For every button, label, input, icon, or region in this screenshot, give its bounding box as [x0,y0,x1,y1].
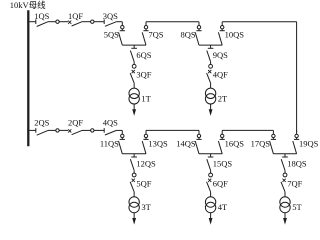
wire drop to 17QS [272,130,274,134]
svg-text:14QS: 14QS [176,138,196,148]
disconnector 1QS [35,19,37,24]
svg-text:8QS: 8QS [180,30,195,40]
disconnector 10QS [221,29,223,31]
wire 2QS to junction [48,129,56,131]
wire junction to 2QF [59,129,68,131]
wire drop to 13QS [145,130,147,134]
circuit breaker 5QF [132,179,135,182]
connection point 6QF [209,173,213,177]
junction point [91,20,94,23]
svg-text:1QF: 1QF [68,11,83,21]
wire junction to 1QF [59,21,68,23]
svg-text:15QS: 15QS [213,159,233,169]
wire jumper 13QS-14QS [146,129,199,131]
wire bar 11QS/13QS [122,153,146,155]
10kV busbar [27,10,29,146]
wire right riser [296,22,298,133]
connection point 5QF [132,173,136,177]
wire drop to 10QS [221,22,223,26]
svg-text:3QF: 3QF [136,70,151,80]
load arrow 3T [132,218,136,225]
svg-text:2T: 2T [218,93,228,103]
svg-text:4T: 4T [218,202,228,212]
load arrow 5T [283,218,287,225]
svg-text:5T: 5T [292,202,302,212]
svg-text:10kV母线: 10kV母线 [10,0,46,10]
connection point 17QS [272,134,275,137]
svg-text:7QF: 7QF [287,178,302,188]
wire busbar to 1QS [29,21,35,23]
svg-text:4QS: 4QS [103,117,118,127]
svg-text:13QS: 13QS [148,138,168,148]
wire 5T to load [284,213,286,219]
load arrow 4T [209,218,213,225]
connection point 8QS [197,26,200,29]
disconnector 9QS [210,45,212,48]
svg-text:11QS: 11QS [100,138,119,148]
svg-text:1T: 1T [141,93,151,103]
svg-text:2QF: 2QF [68,117,83,127]
disconnector 18QS [284,154,286,157]
wire 1T to load [133,104,135,110]
disconnector 16QS [221,138,223,140]
disconnector 14QS [198,138,200,140]
wire 4QS to drop [116,129,122,131]
junction point [56,20,59,23]
connection point 7QF [283,173,287,177]
circuit breaker 1QF [68,21,71,24]
svg-text:10QS: 10QS [225,30,245,40]
connection point 7QS [144,26,147,29]
wire bar 17QS/19QS [273,153,296,155]
disconnector 11QS [121,138,123,140]
wire drop to 5QS [121,22,123,26]
disconnector 15QS [210,154,212,157]
wire jumper 10QS to right riser [222,21,296,23]
transformer 1T [129,88,139,98]
transformer 2T [205,88,215,98]
connection point 3QF [132,64,136,68]
svg-text:2QS: 2QS [34,117,49,127]
svg-text:12QS: 12QS [136,159,156,169]
transformer 4T [205,197,215,207]
svg-text:18QS: 18QS [287,159,307,169]
connection point 19QS [295,134,298,137]
wire busbar to 2QS [29,129,35,131]
wire jumper 16QS-17QS [222,129,273,131]
svg-text:4QF: 4QF [213,70,228,80]
disconnector 3QS [103,19,105,24]
svg-text:9QS: 9QS [213,50,228,60]
wire 1QS to junction [48,21,56,23]
disconnector 2QS [35,128,37,133]
disconnector 4QS [103,128,105,133]
wire junction to 4QS [94,129,104,131]
wire drop to 11QS [121,130,123,134]
svg-text:5QF: 5QF [136,178,151,188]
connection point 10QS [221,26,224,29]
junction point [56,129,59,132]
connection point 5QS [121,26,124,29]
svg-text:16QS: 16QS [225,138,245,148]
disconnector 17QS [272,138,274,140]
wire drop to 19QS [296,130,298,134]
load arrow 2T [209,109,213,116]
wire 4T to load [210,213,212,219]
svg-text:5QS: 5QS [104,30,119,40]
svg-text:3QS: 3QS [103,11,118,21]
circuit breaker 2QF [68,129,71,132]
disconnector 7QS [145,29,147,31]
disconnector 13QS [145,138,147,140]
wire drop to 8QS [198,22,200,26]
disconnector 12QS [133,154,135,157]
wire 1QF to junction [82,21,91,23]
wire drop to 16QS [221,130,223,134]
connection point 16QS [221,134,224,137]
wire 3QS to drop [116,21,122,23]
circuit breaker 4QF [208,70,211,73]
svg-text:7QS: 7QS [148,30,163,40]
svg-text:3T: 3T [141,202,151,212]
wire bar 5QS/7QS [122,44,146,46]
wire junction to 3QS [94,21,104,23]
junction point [91,129,94,132]
connection point 13QS [144,134,147,137]
wire bar 8QS/10QS [199,44,222,46]
svg-text:19QS: 19QS [299,138,319,148]
connection point 11QS [121,134,124,137]
wire 3T to load [133,213,135,219]
svg-text:6QF: 6QF [213,178,228,188]
disconnector 6QS [133,45,135,48]
svg-text:17QS: 17QS [251,138,271,148]
svg-text:1QS: 1QS [34,11,49,21]
wire drop to 7QS [145,22,147,26]
load arrow 1T [132,109,136,116]
circuit breaker 3QF [132,70,135,73]
wire 2T to load [210,104,212,110]
transformer 3T [129,197,139,207]
wire drop to 14QS [198,130,200,134]
circuit breaker 6QF [208,179,211,182]
disconnector 8QS [198,29,200,31]
disconnector 5QS [121,29,123,31]
wire bar 14QS/16QS [199,153,222,155]
disconnector 19QS [296,138,298,140]
connection point 14QS [197,134,200,137]
svg-text:6QS: 6QS [136,50,151,60]
circuit breaker 7QF [283,179,286,182]
connection point 4QF [209,64,213,68]
wire jumper 7QS-8QS [146,21,199,23]
wire 2QF to junction [82,129,91,131]
transformer 5T [280,197,290,207]
